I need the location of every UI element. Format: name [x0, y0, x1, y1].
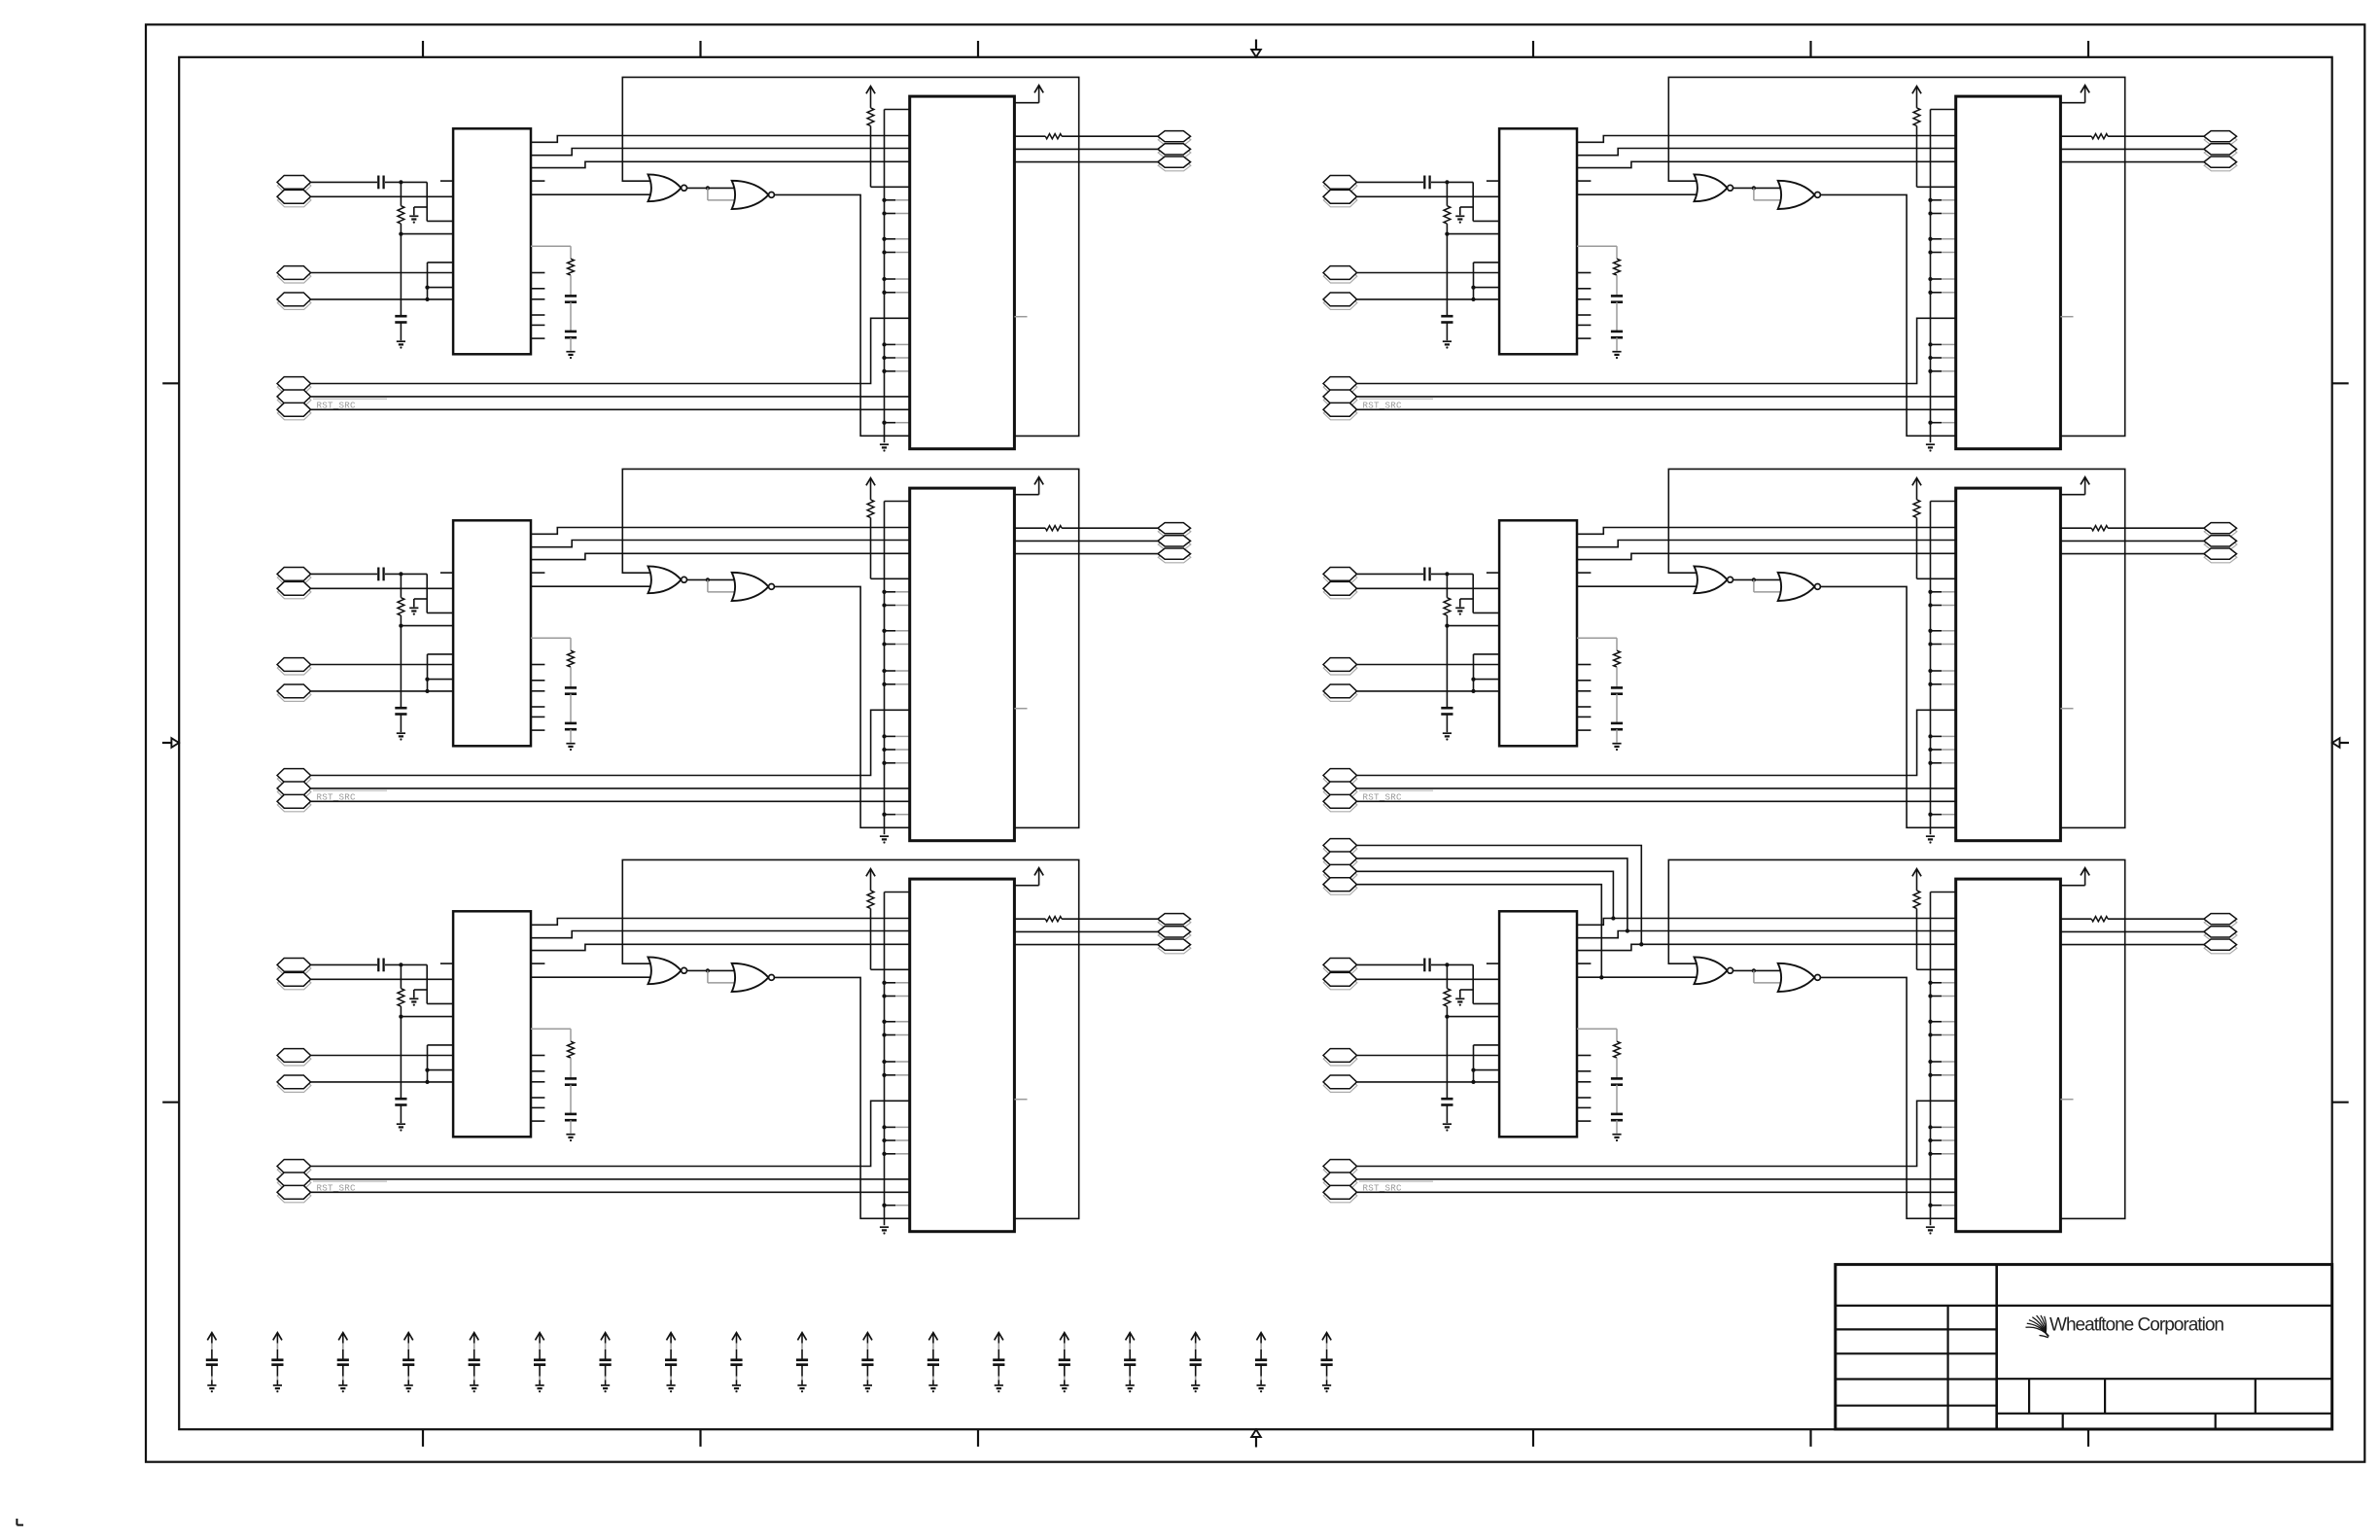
center marker top: [1251, 40, 1261, 57]
bypass capacitor unit 15: [1124, 1333, 1136, 1393]
bypass capacitor unit 5: [469, 1333, 480, 1393]
junction: [1639, 942, 1643, 946]
company cell grid: [1997, 1306, 2332, 1429]
SRC channel block B2: [1323, 469, 2237, 843]
SRC channel block B3: [1323, 859, 2237, 1234]
logo feather: [2026, 1315, 2049, 1338]
bypass capacitor unit 3: [337, 1333, 349, 1393]
junction: [1599, 975, 1603, 979]
wire: [1357, 871, 1614, 918]
bypass capacitor unit 13: [993, 1333, 1004, 1393]
node AUX2 port: [1323, 852, 1357, 868]
bypass capacitor unit 10: [796, 1333, 808, 1393]
zone ticks bottom: [423, 1429, 2088, 1447]
junction: [1626, 928, 1629, 932]
center marker bottom: [1251, 1429, 1261, 1447]
zone ticks top: [423, 41, 2088, 57]
SRC channel block A1: [277, 77, 1191, 451]
bypass capacitor unit 14: [1059, 1333, 1070, 1393]
bypass capacitor unit 2: [271, 1333, 283, 1393]
bypass capacitor unit 18: [1321, 1333, 1333, 1393]
bypass capacitor unit 11: [861, 1333, 873, 1393]
bypass capacitor unit 9: [730, 1333, 742, 1393]
wire: [1357, 846, 1642, 945]
SRC channel block A2: [277, 469, 1191, 843]
bypass capacitor unit 4: [402, 1333, 414, 1393]
node AUX1 port: [1323, 839, 1357, 856]
center marker left: [162, 738, 179, 748]
corner crop mark: [17, 1519, 23, 1525]
node AUX3 port: [1323, 864, 1357, 881]
bypass capacitor unit 1: [206, 1333, 218, 1393]
title block frame: [1836, 1265, 2332, 1429]
SRC channel block A3: [277, 859, 1191, 1234]
zone ticks sides: [162, 383, 2349, 1102]
revision table: [1836, 1306, 1997, 1429]
bypass capacitor unit 17: [1255, 1333, 1267, 1393]
bypass capacitor unit 16: [1190, 1333, 1202, 1393]
center marker right: [2332, 738, 2349, 748]
wire: [1357, 858, 1627, 931]
bypass capacitor unit 12: [927, 1333, 939, 1393]
bypass capacitor unit 6: [534, 1333, 545, 1393]
svg-text:Wheatſtone Corporation: Wheatſtone Corporation: [2049, 1315, 2224, 1336]
junction: [1611, 916, 1615, 920]
bypass capacitor unit 7: [600, 1333, 612, 1393]
SRC channel block B1: [1323, 77, 2237, 451]
title block divider: [1995, 1265, 1998, 1429]
wire: [1357, 885, 1602, 978]
bypass capacitor unit 8: [665, 1333, 677, 1393]
node AUX4 port: [1323, 878, 1357, 894]
